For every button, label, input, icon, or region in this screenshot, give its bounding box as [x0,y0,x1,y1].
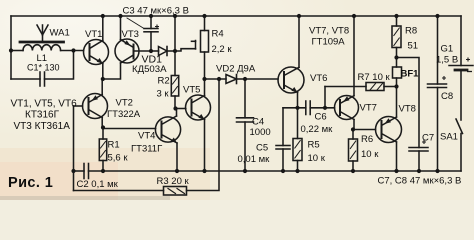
svg-text:10 к: 10 к [361,149,379,160]
svg-text:С1* 130: С1* 130 [27,63,60,73]
svg-text:С3 47 мк×6,3 В: С3 47 мк×6,3 В [123,6,189,17]
svg-text:С4: С4 [252,117,264,128]
svg-text:КД503А: КД503А [132,64,167,75]
svg-text:ГТ311Г: ГТ311Г [131,144,162,155]
svg-text:VT1: VT1 [85,29,102,40]
svg-text:VT2: VT2 [116,98,133,109]
svg-text:3 к: 3 к [157,89,170,100]
svg-text:2,2 к: 2,2 к [212,44,233,55]
svg-text:R3 20 к: R3 20 к [157,176,190,187]
svg-text:VT3: VT3 [122,29,139,40]
svg-text:VT1, VT5, VT6: VT1, VT5, VT6 [11,99,78,110]
svg-text:0,22 мк: 0,22 мк [301,124,334,135]
svg-text:С2 0,1 мк: С2 0,1 мк [77,179,119,190]
svg-text:R4: R4 [212,29,224,40]
svg-text:VD2 Д9А: VD2 Д9А [216,64,256,75]
svg-text:R8: R8 [405,26,417,37]
svg-text:С7, С8 47 мк×6,3 В: С7, С8 47 мк×6,3 В [378,176,462,187]
svg-text:R5: R5 [308,140,320,151]
svg-text:R6: R6 [361,134,373,145]
svg-text:ГТ322А: ГТ322А [107,109,141,120]
svg-text:VT7, VT8: VT7, VT8 [309,26,349,37]
svg-text:5,6 к: 5,6 к [108,153,129,164]
svg-text:С6: С6 [315,112,327,123]
svg-text:BF1: BF1 [401,69,420,80]
svg-text:R2: R2 [158,76,170,87]
svg-text:WA1: WA1 [50,28,70,39]
svg-text:1,5 В: 1,5 В [436,55,458,66]
svg-text:VT6: VT6 [310,73,327,84]
svg-text:SA1: SA1 [440,132,458,143]
svg-text:R1: R1 [108,140,120,151]
svg-text:51: 51 [408,41,419,52]
svg-text:С7: С7 [422,133,434,144]
svg-text:VT8: VT8 [399,104,416,115]
svg-text:С8: С8 [441,91,453,102]
svg-text:Рис. 1: Рис. 1 [8,175,53,191]
svg-text:С5: С5 [256,143,268,154]
svg-text:КТ316Г: КТ316Г [25,110,60,121]
svg-text:1000: 1000 [250,127,271,138]
svg-text:10 к: 10 к [308,153,326,164]
svg-text:ГТ109А: ГТ109А [312,37,346,48]
svg-text:VT4: VT4 [138,131,155,142]
svg-text:R7 10 к: R7 10 к [358,72,391,83]
svg-text:VT5: VT5 [183,85,200,96]
svg-text:0,01 мк: 0,01 мк [238,154,271,165]
svg-text:VT7: VT7 [360,103,377,114]
svg-text:G1: G1 [441,44,454,55]
svg-text:VT3 КТ361А: VT3 КТ361А [14,121,71,132]
